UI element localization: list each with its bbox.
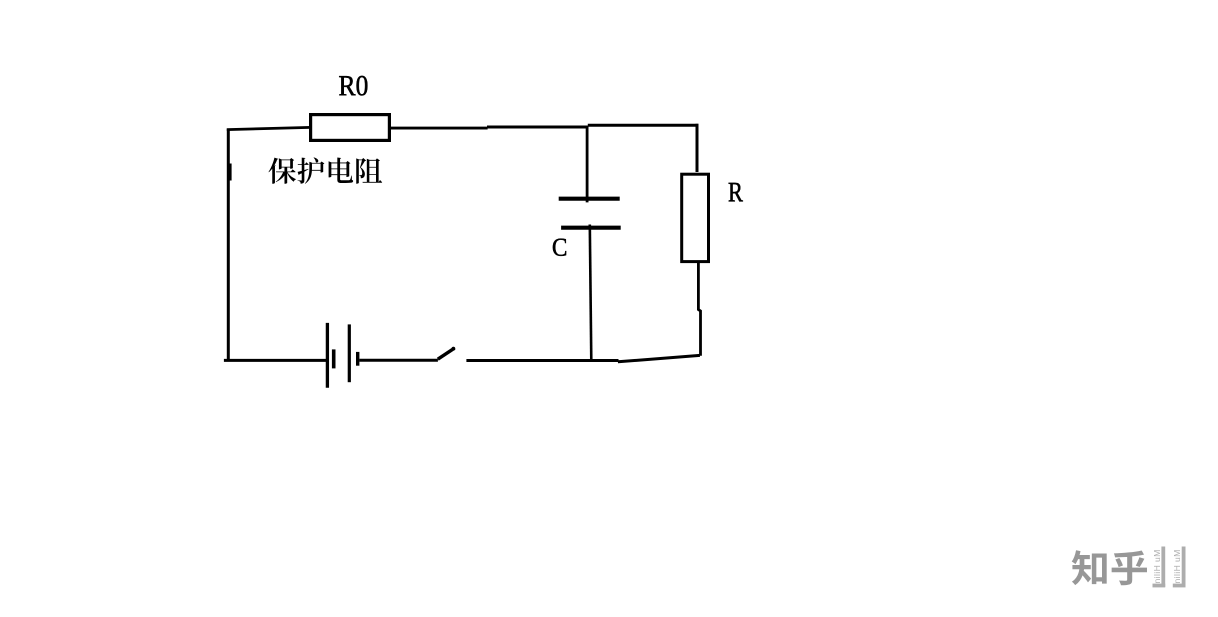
capacitor C top plate [559, 197, 620, 201]
wire bottom middle [466, 359, 618, 362]
svg-text:niliH uM: niliH uM [1152, 549, 1162, 583]
label 保护电阻 (protective resistor) [269, 157, 383, 183]
switch blade tip [452, 347, 456, 351]
battery cell 2 long plate [348, 324, 351, 382]
svg-text:niliH uM: niliH uM [1172, 549, 1182, 583]
switch blade [438, 348, 455, 359]
label R [729, 183, 743, 201]
resistor R0 [311, 115, 390, 141]
capacitor C top lead [586, 126, 589, 203]
resistor R [682, 174, 709, 261]
wire top middle segment [487, 126, 588, 129]
label C [553, 239, 566, 256]
wire R0 to first step [389, 127, 487, 130]
watermark zhihu logo text [1072, 550, 1147, 585]
capacitor C lower lead [590, 225, 592, 362]
watermark column 1 (rotated handle text) [1152, 547, 1165, 588]
wire joint blob on left wire [227, 164, 232, 181]
wire left vertical [227, 129, 230, 361]
wire battery to switch [359, 359, 438, 362]
wire top right segment [588, 124, 699, 127]
watermark column 2 (rotated handle text) [1172, 547, 1185, 588]
capacitor C bottom plate [561, 226, 621, 230]
label R0 [339, 76, 367, 96]
battery cell 1 short plate [332, 349, 336, 368]
wire right vertical upper [696, 124, 699, 172]
wire bottom left [224, 359, 327, 362]
wire R lower lead [698, 262, 700, 356]
battery cell 2 short plate [356, 352, 359, 366]
wire bottom-right slanted [618, 355, 700, 361]
battery cell 1 long plate [326, 323, 329, 388]
wire top-left to R0 [227, 127, 311, 129]
